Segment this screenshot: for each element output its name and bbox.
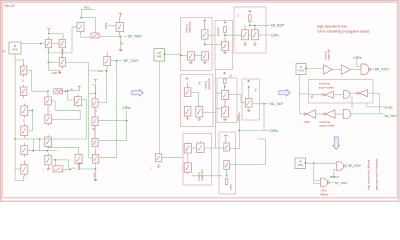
module M3 label bbox=[236, 14, 240, 17]
module M4 label 74 bbox=[197, 81, 201, 86]
wire row 147 to Q21 bbox=[47, 147, 78, 154]
transistor Q37 bbox=[197, 141, 205, 153]
wire Q2 to node down bbox=[48, 53, 59, 63]
pad P2 OP PAD bbox=[154, 49, 165, 62]
resistor R5 bbox=[249, 15, 252, 21]
pad P1 IP PAD bbox=[9, 42, 21, 54]
buffer label vert b bbox=[327, 49, 331, 60]
svg-text:PAD: PAD bbox=[157, 54, 162, 58]
net label C3Pa top bbox=[271, 33, 279, 37]
svg-text:SD_TxD*: SD_TxD* bbox=[384, 114, 397, 118]
net label DP_TICK bbox=[124, 59, 139, 63]
module box M8 bbox=[219, 132, 236, 194]
wire gate node stub bbox=[48, 62, 60, 70]
module M4 label a bbox=[204, 81, 208, 90]
ground GND8 bbox=[243, 42, 247, 46]
value text 470k bbox=[98, 71, 104, 73]
wire node to Q10 gate bbox=[68, 91, 75, 100]
wire M5 gate stubs bbox=[216, 70, 222, 148]
transistor Q24 bbox=[202, 22, 209, 39]
value text R2 bbox=[70, 89, 74, 91]
svg-text:IP: IP bbox=[299, 159, 302, 163]
net label SD_RxD bbox=[271, 24, 285, 28]
transistor Q21 bbox=[75, 154, 82, 166]
svg-text:logic equivalent only,: logic equivalent only, bbox=[317, 25, 347, 29]
module box M3 bbox=[234, 7, 266, 53]
wire Q24 down link bbox=[204, 39, 222, 45]
wire pad P3 down bbox=[299, 75, 308, 115]
value text below node bbox=[120, 41, 123, 46]
svg-text:super buf: super buf bbox=[207, 78, 211, 89]
ground GND12 bbox=[223, 118, 227, 121]
wire Q22 gate bbox=[89, 93, 93, 158]
transistor Q14 bbox=[92, 139, 98, 147]
wire U5 lower input bbox=[351, 96, 353, 110]
net label SD_TxD mid bbox=[270, 102, 284, 106]
wire U7-U8 bbox=[316, 113, 323, 115]
svg-text:MBNa: MBNa bbox=[320, 192, 328, 196]
wire R6 node bbox=[224, 84, 226, 91]
svg-text:DP_TICK*: DP_TICK* bbox=[124, 59, 139, 63]
wire P2 to module M1 bbox=[165, 53, 181, 55]
supply arrow VP2 bbox=[224, 22, 227, 24]
transistor Q25 bbox=[187, 52, 194, 60]
transistor Q3 bbox=[59, 55, 65, 68]
lead Q12-Q13 bbox=[94, 126, 96, 139]
resistor R2 bbox=[54, 89, 63, 94]
net label SGPa bbox=[384, 105, 392, 109]
wire net label RES bbox=[80, 10, 95, 33]
svg-text:super buf: super buf bbox=[200, 169, 204, 180]
gate U3 bbox=[361, 64, 371, 75]
net label DP_PAD bbox=[128, 35, 143, 39]
module box M4 bbox=[181, 75, 214, 127]
svg-text:IP: IP bbox=[300, 65, 303, 69]
wire Q23 out to M7 bbox=[162, 156, 183, 158]
supply arrow VP4 bbox=[186, 78, 189, 80]
wire row 139 bbox=[14, 138, 86, 151]
transistor Q15 bbox=[21, 104, 28, 119]
svg-text:C3Pa: C3Pa bbox=[122, 106, 130, 110]
svg-text:SP_XXX*: SP_XXX* bbox=[348, 164, 362, 168]
ground GND6 bbox=[203, 60, 207, 63]
transistor Q29 bbox=[252, 25, 259, 40]
svg-text:74x: 74x bbox=[197, 81, 201, 86]
wire Q9 out bbox=[51, 101, 55, 110]
wire C3Pa star net bbox=[330, 170, 337, 177]
transistor Q16 bbox=[21, 124, 28, 139]
module M6 label bbox=[255, 88, 258, 92]
gate U9 bbox=[343, 109, 350, 118]
module label MBNa bbox=[320, 192, 328, 196]
module label 7400b bbox=[320, 189, 327, 193]
wire Q12 out to rail bbox=[98, 120, 127, 122]
wire M2 out row continues bbox=[233, 34, 242, 36]
transistor Q23 bbox=[155, 154, 162, 162]
net label C3Pa right bbox=[353, 56, 361, 60]
flow arrow A3 bbox=[333, 137, 339, 150]
jumper J1 bbox=[91, 33, 99, 38]
svg-text:C3Pa*: C3Pa* bbox=[330, 175, 340, 179]
inverter U7 bbox=[304, 110, 316, 118]
transistor Q34 bbox=[222, 107, 229, 117]
transistor Q33 bbox=[222, 90, 229, 99]
wire S1 output bbox=[63, 169, 80, 171]
transistor Q35 bbox=[245, 98, 252, 107]
wire C3Pa mid net bbox=[99, 110, 127, 141]
module M5 label bbox=[230, 73, 233, 77]
inverter U6 bbox=[357, 90, 368, 97]
transistor Q2 bbox=[59, 37, 66, 53]
transistor Q18 bbox=[21, 143, 28, 157]
net label SP_XXX bbox=[348, 164, 362, 168]
wire Q24 out right bbox=[208, 34, 215, 36]
module M1 label b bbox=[188, 22, 192, 33]
ground flag GF3 bbox=[58, 70, 62, 74]
wire P4 out bbox=[306, 162, 337, 164]
supply arrow VP1 bbox=[204, 20, 207, 22]
ground GND10 bbox=[186, 116, 190, 119]
value text R7 bbox=[231, 183, 233, 190]
wire J1 to DP_PAD node bbox=[99, 36, 127, 38]
wire C3Pa bottom net bbox=[238, 104, 268, 149]
wire row 150 bbox=[28, 139, 57, 152]
net label SD_TxD right bbox=[384, 114, 397, 118]
supply VCC3 bbox=[119, 13, 122, 17]
module M7 label a bbox=[197, 172, 201, 181]
svg-text:super buf: super buf bbox=[327, 49, 331, 60]
net label gnd text bbox=[94, 172, 96, 177]
transistor Q38 bbox=[184, 161, 191, 174]
transistor Q6 bbox=[116, 17, 124, 37]
svg-text:MBNa: MBNa bbox=[231, 183, 233, 190]
transistor Q8 bbox=[20, 85, 27, 99]
wire Q15 right bbox=[28, 110, 33, 131]
svg-text:Rev 02: Rev 02 bbox=[5, 4, 15, 8]
wire Q19 loop bbox=[15, 139, 24, 180]
svg-text:PAD: PAD bbox=[298, 163, 303, 167]
ground GND11 bbox=[198, 117, 202, 120]
net label C3Pa mid bbox=[122, 106, 130, 110]
wire R5 node SD_RxD bbox=[249, 21, 270, 26]
value text Q7 bbox=[22, 79, 24, 82]
value text q15 bbox=[23, 120, 25, 123]
pad P3 IP PAD bbox=[296, 64, 307, 75]
supply bar M8 bbox=[224, 135, 227, 143]
pin text S1 bbox=[43, 169, 45, 172]
gate U11 bbox=[321, 178, 330, 187]
svg-text:C3Pa: C3Pa bbox=[270, 129, 278, 133]
wire U11 out bbox=[329, 181, 334, 183]
ground flag GF2 bbox=[94, 170, 98, 182]
wire into Q11 bbox=[89, 92, 97, 94]
wire U5-U6 bbox=[350, 92, 357, 94]
value text q18 bbox=[24, 160, 26, 163]
wire U2-U3 bbox=[351, 69, 361, 71]
module box M1 bbox=[181, 18, 213, 71]
module M9 label a bbox=[319, 82, 330, 86]
wire SD_TxD out bbox=[252, 103, 269, 105]
annotation vert col 2 bbox=[376, 158, 379, 190]
supply VCC4 bbox=[78, 86, 81, 91]
module M7 label b bbox=[200, 169, 204, 180]
wire P3 to U1 bbox=[306, 68, 324, 70]
wire row rail 91 bbox=[32, 90, 79, 92]
buffer U2 bbox=[341, 65, 351, 75]
wire Q11 gate link bbox=[98, 71, 106, 103]
net label DP_XXX bbox=[375, 68, 390, 72]
svg-text:SD_TxD*: SD_TxD* bbox=[270, 102, 284, 106]
value text R3 bbox=[71, 168, 75, 170]
wire node to Q9 top bbox=[47, 91, 49, 95]
inverter U4 bbox=[322, 91, 333, 98]
supply arrow VP3 bbox=[249, 10, 252, 12]
wire Q38 out bbox=[192, 175, 223, 177]
ground GND5 bbox=[189, 60, 193, 63]
supply VCC1 bbox=[47, 29, 50, 34]
transistor Q12 bbox=[92, 117, 98, 126]
lead Q33-Q34 bbox=[224, 100, 226, 107]
wire C3Pa to Q6 gate bbox=[108, 25, 116, 27]
wire Q7 Q8 right link bbox=[27, 70, 32, 91]
svg-text:C3Pa: C3Pa bbox=[104, 22, 108, 29]
svg-text:super buffer: super buffer bbox=[319, 85, 334, 89]
wire U4-U5 bbox=[333, 94, 343, 96]
module label 7400 bbox=[304, 120, 311, 124]
wire Q1 Q2 sources bbox=[49, 27, 77, 54]
annotation vert col 1 bbox=[368, 160, 371, 190]
wire Q21 bottom bbox=[78, 166, 80, 169]
pad P4 IP PAD bbox=[295, 158, 306, 169]
annotation line 2 bbox=[317, 29, 370, 33]
wire Q36 to Q38 bbox=[187, 153, 189, 163]
module box M5 bbox=[217, 78, 237, 123]
transistor Q22 bbox=[92, 148, 99, 165]
wire SGPa tap bbox=[367, 103, 385, 107]
module M1 label a bbox=[184, 24, 188, 33]
resistor R7 bbox=[225, 179, 228, 185]
svg-text:C3Pa: C3Pa bbox=[271, 33, 279, 37]
resistor R4 bbox=[224, 27, 227, 33]
transistor Q4 bbox=[77, 23, 84, 35]
wire hline 110 bbox=[52, 110, 80, 119]
svg-text:MBNa: MBNa bbox=[238, 114, 240, 121]
resistor R6 bbox=[224, 79, 227, 84]
transistor Q40 bbox=[224, 161, 230, 170]
supply VCC6 bbox=[78, 163, 81, 169]
flow arrow A2 bbox=[279, 90, 291, 96]
svg-text:DP_PAD*: DP_PAD* bbox=[128, 35, 143, 39]
svg-text:IP: IP bbox=[14, 44, 17, 48]
svg-text:RES→: RES→ bbox=[84, 7, 92, 10]
lead Q11-Q12 bbox=[94, 107, 96, 117]
ground GND13 bbox=[247, 109, 251, 112]
lead Q9-Q9b bbox=[47, 107, 49, 115]
ground GND7 bbox=[223, 51, 227, 54]
transistor Q32 bbox=[196, 107, 203, 118]
wire U1-U2 bbox=[332, 69, 341, 71]
transistor Q26 bbox=[201, 52, 208, 60]
transistor Q19 bbox=[21, 162, 28, 176]
svg-text:GND: GND bbox=[52, 72, 58, 75]
module M4 label b bbox=[207, 78, 211, 89]
buffer label vert a bbox=[323, 51, 327, 60]
wire U9 out SD_TxD bbox=[351, 113, 385, 115]
transistor Q17 bbox=[45, 135, 52, 149]
transistor Q28 bbox=[242, 25, 249, 40]
wire P2 down bbox=[159, 61, 161, 154]
wire Q25-Q26 bbox=[194, 54, 201, 56]
ground flag GF1 bbox=[119, 37, 123, 52]
value text q11 bbox=[96, 111, 98, 113]
net label vcc5 bbox=[93, 83, 95, 86]
wire U8-U9 bbox=[335, 113, 343, 115]
wire Q13 bottom bbox=[98, 66, 107, 72]
wire M9 row1 in bbox=[309, 94, 323, 96]
wire Q20 gate row bbox=[52, 159, 69, 169]
wire Q36-Q37 bbox=[183, 147, 224, 149]
wire M9 out elbow bbox=[368, 93, 380, 114]
net label SP_7400 bbox=[335, 181, 348, 185]
svg-text:logic concept only, different: logic concept only, different bbox=[368, 160, 371, 190]
inverter U8 bbox=[323, 110, 335, 118]
switch S1 bbox=[53, 166, 63, 172]
wire U10 out bbox=[345, 165, 347, 167]
module box M9 bbox=[309, 80, 374, 104]
transistor Q10 bbox=[75, 95, 82, 108]
wire C3Pa into U3 bbox=[357, 60, 361, 67]
svg-text:inverter: inverter bbox=[216, 27, 220, 36]
wire M4 out bbox=[203, 111, 216, 113]
supply VCC5 bbox=[94, 80, 97, 83]
wire pad into U7 bbox=[299, 113, 303, 115]
wire Q22 source node bbox=[80, 166, 96, 170]
transistor Q9 bbox=[45, 95, 52, 107]
transistor Q20 bbox=[45, 153, 52, 167]
transistor Q11 bbox=[92, 99, 98, 107]
ground GND4 bbox=[157, 164, 161, 167]
flow arrow A1 bbox=[132, 90, 144, 96]
transistor Q27 bbox=[222, 39, 229, 51]
net label RES-7 bbox=[84, 7, 92, 10]
transistor Q36 bbox=[184, 142, 191, 154]
gate U5 bbox=[343, 91, 350, 99]
wire VCC to Q1 drain bbox=[48, 33, 64, 37]
supply arrow VP6 bbox=[247, 80, 250, 82]
wire vertical rail 117 bbox=[99, 61, 117, 158]
svg-text:PAD: PAD bbox=[12, 48, 17, 52]
value text 4069 bbox=[52, 72, 58, 75]
wire pad P1 down rail bbox=[15, 54, 24, 139]
net label C3Pa star bbox=[330, 175, 340, 179]
transistor Q30 bbox=[184, 83, 191, 97]
value text q9 bbox=[49, 111, 51, 113]
svg-text:SD_RxD*: SD_RxD* bbox=[271, 24, 285, 28]
wire pad P1 output bbox=[21, 43, 59, 45]
svg-text:super buffer: super buffer bbox=[320, 124, 335, 128]
annotation line 1 bbox=[317, 25, 347, 29]
module box M2 bbox=[215, 21, 233, 70]
module box M7 bbox=[183, 134, 212, 186]
svg-text:not for estimating propagation: not for estimating propagation delays bbox=[317, 29, 370, 33]
wire Q40 bottom bbox=[226, 169, 228, 176]
svg-text:SP_7400: SP_7400 bbox=[335, 181, 348, 185]
wire U3 out bbox=[370, 68, 374, 70]
module label invsb b bbox=[320, 124, 335, 128]
wire Q10 out down bbox=[82, 100, 86, 139]
svg-text:super buf: super buf bbox=[188, 22, 192, 33]
buffer U1 bbox=[324, 65, 333, 74]
svg-text:C3Pa: C3Pa bbox=[353, 56, 361, 60]
svg-text:gate types used in hardware: gate types used in hardware bbox=[376, 158, 379, 190]
svg-text:SGPa: SGPa bbox=[384, 105, 392, 109]
ground GND9 bbox=[253, 42, 257, 46]
title text bbox=[5, 4, 15, 8]
wire Q4 source to Q5 bbox=[81, 34, 92, 37]
wire Q39 link bbox=[229, 148, 239, 150]
supply VCC2 bbox=[61, 50, 64, 55]
module M6 sub label bbox=[238, 114, 240, 121]
module M9 74x bbox=[311, 94, 314, 99]
svg-text:OP: OP bbox=[157, 51, 161, 55]
wire Q33 out bbox=[229, 94, 246, 102]
wire Q3 output bbox=[66, 62, 89, 93]
transistor Q1 bbox=[45, 37, 52, 53]
supply arrow VP5 bbox=[223, 72, 226, 74]
gate U10 bbox=[337, 162, 346, 171]
transistor Q7 bbox=[20, 64, 27, 78]
module M9 label b bbox=[319, 85, 334, 89]
wire M1 input bbox=[180, 54, 187, 56]
transistor Q39 bbox=[224, 143, 230, 151]
value text q12 bbox=[92, 129, 95, 131]
transistor Q9b bbox=[45, 115, 52, 126]
svg-text:DP_XXX*: DP_XXX* bbox=[375, 68, 390, 72]
svg-text:7400: 7400 bbox=[304, 120, 311, 124]
module M2 label bbox=[216, 27, 220, 36]
module box M6 bbox=[242, 79, 260, 120]
wire q13 left bbox=[89, 70, 99, 72]
net label C3Pa bottom bbox=[270, 129, 278, 133]
wire Q30 out bbox=[191, 93, 199, 107]
lead Q11 top bbox=[94, 84, 96, 99]
module label invsb a bbox=[320, 120, 331, 124]
wire R4 to Q27 bbox=[224, 33, 241, 40]
pin text P1 bbox=[3, 51, 7, 54]
svg-text:PAD: PAD bbox=[298, 69, 303, 73]
pin text Q23 bbox=[150, 168, 152, 170]
wire Q28-Q29 link bbox=[249, 34, 271, 36]
wire M8 out bbox=[229, 139, 265, 165]
ground GND2 bbox=[46, 167, 50, 170]
transistor Q13 bbox=[104, 52, 111, 66]
net label C3Pa vertical bbox=[104, 22, 108, 29]
wire Q13 out DP_TICK bbox=[111, 60, 124, 62]
transistor Q31 bbox=[184, 107, 191, 117]
wire Q4 gate bbox=[72, 26, 77, 28]
wire P4 to U11 bbox=[314, 163, 321, 183]
wire VP6 link bbox=[248, 86, 250, 99]
